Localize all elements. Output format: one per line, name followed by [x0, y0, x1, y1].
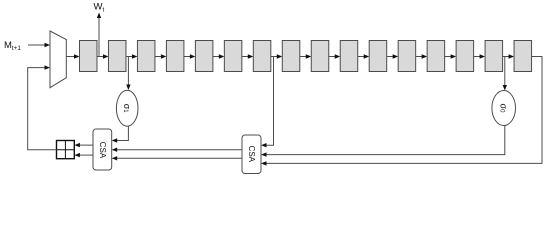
output label Wt	[94, 2, 105, 14]
sigma0 block	[492, 91, 516, 126]
input label Mt+1	[4, 40, 21, 52]
wire R2 tap to sigma1	[126, 57, 130, 91]
wire R9 to R10	[329, 54, 340, 58]
wire R2 to R3	[126, 54, 137, 58]
wire adder A1 feedback to mux input 1	[28, 65, 57, 149]
wire mux output to register R1	[66, 54, 79, 58]
wire R15 tap to sigma0	[503, 57, 507, 91]
register R13	[427, 41, 445, 72]
register R9	[311, 41, 329, 72]
wire sigma0 output to CSA U2	[261, 126, 505, 157]
wire R1 to R2	[97, 54, 108, 58]
wire R7 to R8	[271, 54, 282, 58]
wire CSA U3 carry to adder A1	[74, 153, 93, 157]
wire R7 tap to CSA U2	[261, 57, 274, 148]
wire Wt output tap	[97, 13, 101, 57]
register R4	[166, 41, 184, 72]
wire R16 output to CSA U2	[261, 57, 542, 166]
register R11	[369, 41, 387, 72]
register R8	[282, 41, 300, 72]
wire R6 to R7	[242, 54, 253, 58]
wire R5 to R6	[213, 54, 224, 58]
sigma1 block	[116, 90, 138, 126]
wire Mt+1 to mux input 0	[28, 43, 50, 47]
CSA U3	[93, 129, 112, 170]
adder A1	[57, 141, 75, 159]
CSA U2	[242, 135, 261, 174]
register R14	[456, 41, 474, 72]
wire R12 to R13	[416, 54, 427, 58]
register R7	[253, 41, 271, 72]
register R1	[80, 41, 98, 72]
register R10	[340, 41, 358, 72]
wire sigma1 output to CSA U3	[112, 126, 129, 143]
register R16	[514, 41, 532, 72]
wire CSA U2 carry to CSA U3	[112, 156, 242, 160]
mux U1	[50, 31, 66, 88]
register R15	[485, 41, 503, 72]
svg-text:CSA: CSA	[247, 146, 256, 163]
register R5	[195, 41, 213, 72]
svg-text:CSA: CSA	[98, 142, 107, 159]
wire CSA U2 sum to CSA U3	[112, 148, 242, 152]
wire R8 to R9	[300, 54, 311, 58]
wire R10 to R11	[358, 54, 369, 58]
wire R15 to R16	[503, 54, 514, 58]
register R6	[224, 41, 242, 72]
wire R13 to R14	[445, 54, 456, 58]
wire R4 to R5	[184, 54, 195, 58]
wire R11 to R12	[387, 54, 398, 58]
register R2	[108, 41, 126, 72]
register R12	[398, 41, 416, 72]
wire R14 to R15	[474, 54, 485, 58]
wire R3 to R4	[155, 54, 166, 58]
register R3	[137, 41, 155, 72]
wire CSA U3 sum to adder A1	[74, 143, 93, 147]
